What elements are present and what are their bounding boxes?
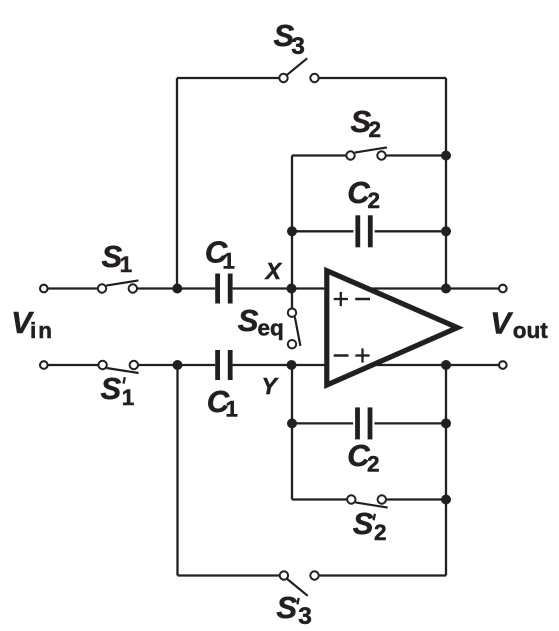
svg-text:S: S	[101, 371, 122, 406]
label S1	[102, 239, 133, 277]
wire S2' rail left segment	[292, 498, 347, 500]
wire C2 top rail left segment	[292, 230, 353, 232]
wire op-amp output- to terminal	[372, 364, 499, 366]
svg-text:S: S	[238, 303, 259, 338]
input terminal Vin-	[40, 361, 48, 369]
svg-text:1: 1	[225, 397, 238, 422]
label Vin	[11, 305, 54, 343]
wire S1 to C1 (top)	[137, 287, 215, 289]
wire S2/C2 left vertical (to node X)	[291, 156, 293, 309]
wire right vertical (S3/S2/C2 to output+ node)	[445, 78, 447, 289]
svg-text:1: 1	[122, 385, 135, 410]
switch S3	[279, 58, 318, 82]
switch S1'	[98, 361, 138, 373]
switch S2'	[347, 495, 388, 507]
label X	[264, 258, 283, 284]
junction C2 top left	[287, 226, 297, 236]
label S3	[274, 18, 305, 60]
op-amp - input mark (bottom)	[334, 354, 349, 357]
label C1 (top)	[205, 234, 235, 273]
svg-text:3: 3	[298, 603, 312, 630]
wire S3 rail left segment	[177, 77, 279, 79]
wire node Y to op-amp -	[292, 364, 327, 366]
junction S2 / right vertical	[441, 151, 451, 161]
op-amp U1	[327, 271, 458, 385]
wire C2 top rail right segment	[375, 230, 446, 232]
junction S2' / right vertical	[441, 495, 451, 505]
junction C2 top right	[441, 226, 451, 236]
node Y	[287, 360, 297, 370]
wire S2 rail right segment	[386, 154, 446, 156]
label C2 (top)	[347, 175, 380, 213]
label C2 (bottom)	[347, 438, 379, 476]
capacitor C1 (bottom)	[218, 350, 231, 380]
junction C2 bottom left	[287, 418, 297, 428]
label S2'	[353, 506, 387, 545]
svg-text:3: 3	[291, 33, 305, 60]
wire C1 to node X	[233, 287, 292, 289]
capacitor C1 (top)	[218, 274, 231, 304]
switch S3'	[280, 571, 319, 596]
input terminal Vin+	[40, 285, 48, 293]
output terminal Vout-	[499, 361, 507, 369]
label Vout	[490, 306, 548, 343]
wire op-amp output+ to terminal	[372, 287, 499, 289]
switch S2	[346, 147, 387, 159]
svg-text:2: 2	[368, 117, 381, 142]
svg-text:S: S	[276, 590, 297, 625]
svg-text:2: 2	[367, 451, 380, 476]
label Y	[262, 373, 280, 399]
output terminal Vout+	[499, 285, 507, 293]
wire Y feedback left vertical	[291, 365, 293, 500]
label C1 (bottom)	[207, 384, 238, 422]
svg-text:out: out	[513, 318, 548, 343]
junction top rail / S3 branch	[172, 284, 182, 294]
svg-text:in: in	[30, 318, 54, 343]
label S2	[351, 104, 381, 142]
wire S3' rail right segment	[319, 574, 446, 576]
svg-text:1: 1	[222, 249, 235, 274]
junction output+ / feedback	[441, 284, 451, 294]
svg-text:X: X	[264, 258, 283, 284]
wire S1' to C1 (bottom)	[138, 364, 215, 366]
junction C2 bottom right	[441, 418, 451, 428]
svg-text:Y: Y	[262, 373, 280, 399]
svg-text:1: 1	[120, 252, 133, 277]
wire C2 bottom rail left segment	[292, 422, 353, 424]
node X	[287, 284, 297, 294]
wire C2 bottom rail right segment	[374, 422, 446, 424]
wire right vertical (output- to S2'/C2/S3')	[445, 365, 447, 576]
wire S2' rail right segment	[386, 498, 446, 500]
op-amp + input mark (top)	[334, 292, 348, 306]
wire S3 rail right segment	[319, 77, 446, 79]
wire S3' rail left segment	[178, 574, 280, 576]
wire S3 branch left vertical	[176, 78, 178, 289]
junction output- / feedback	[441, 360, 451, 370]
wire Vin+ to S1	[48, 287, 98, 289]
wire Vin- to S1'	[48, 364, 98, 366]
svg-text:2: 2	[374, 520, 387, 545]
capacitor C2 (bottom)	[358, 407, 371, 439]
junction bottom rail / S3' branch	[173, 360, 183, 370]
wire node X to op-amp +	[292, 287, 327, 289]
wire S3' branch left vertical	[176, 365, 178, 576]
svg-text:V: V	[490, 306, 513, 341]
label S3'	[276, 590, 312, 630]
label S1'	[101, 371, 135, 410]
label Seq	[238, 303, 284, 341]
svg-text:2: 2	[367, 188, 380, 213]
svg-text:eq: eq	[258, 316, 284, 341]
wire C1 to node Y	[233, 364, 292, 366]
switch Seq	[288, 309, 301, 349]
op-amp + input mark (bottom)	[355, 348, 369, 362]
capacitor C2 (top)	[358, 215, 371, 247]
switch S1	[98, 280, 139, 292]
wire S2 rail left segment	[292, 154, 347, 156]
svg-text:S: S	[353, 506, 374, 541]
op-amp - input mark (top)	[355, 298, 370, 301]
